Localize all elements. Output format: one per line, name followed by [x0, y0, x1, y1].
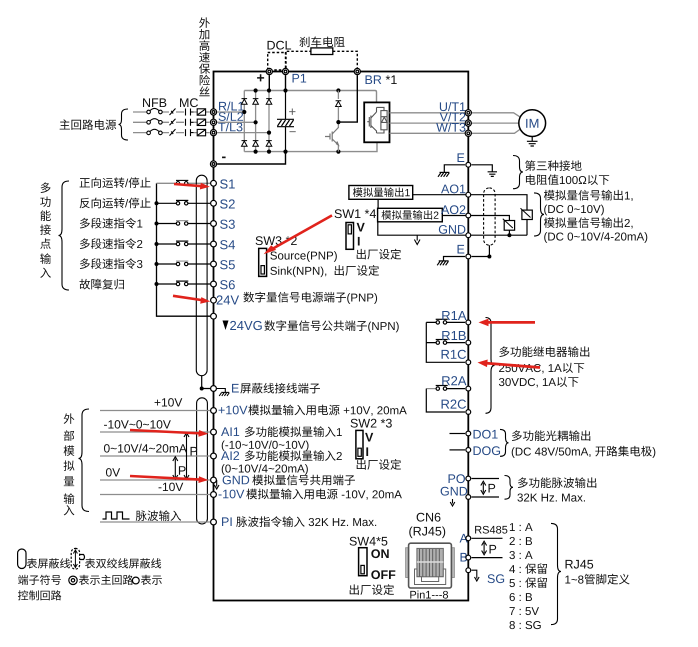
labels R2A R2C	[442, 376, 467, 409]
shield capsule AO pair	[484, 188, 496, 245]
terminals R1A R1B R1C	[466, 320, 471, 365]
brace analog outputs	[534, 193, 544, 236]
pulse waveform glyph	[103, 512, 130, 519]
label DOG	[474, 446, 501, 455]
label SW3 *2	[256, 236, 297, 245]
link box1 to box2	[377, 199, 379, 208]
annotation down arrow under box2	[414, 235, 420, 244]
optocoupler output DO1	[450, 433, 466, 435]
wire AO2	[442, 216, 509, 221]
wire minus terminal to bottom rail	[217, 152, 285, 164]
label +	[257, 74, 264, 81]
brace analog inputs	[79, 409, 90, 512]
switch SW2 body	[356, 430, 363, 458]
common vertical wire	[157, 183, 211, 316]
label minus	[222, 157, 226, 159]
label 1~8管脚定义	[565, 574, 629, 585]
switch SW1 body	[346, 223, 354, 250]
label DO1	[474, 430, 498, 439]
label CN6	[417, 513, 441, 522]
terminal E2	[466, 254, 471, 259]
twisted pair arrow P PO-GND	[481, 481, 486, 494]
red arrow AI1	[130, 430, 208, 437]
inverter module U1	[364, 102, 389, 142]
red arrow GND 0V	[130, 476, 208, 483]
label E2	[458, 245, 465, 254]
wire R1A with contact	[426, 319, 465, 362]
label 模拟量信号输出1,	[544, 190, 633, 201]
legend terminal symbols line	[18, 575, 162, 585]
brace RJ45 pins	[551, 523, 561, 624]
terminal AO1	[466, 192, 471, 197]
wire 0V GND	[100, 479, 210, 481]
label E1	[458, 153, 465, 162]
label AI1 row	[221, 426, 342, 437]
RJ45 pin definition list	[509, 523, 547, 629]
label (0~10V/4~20mA)	[222, 464, 308, 475]
wire R1B with contact	[426, 340, 465, 345]
analog out box 模拟量输出1	[349, 186, 413, 200]
twisted pair arrow P A-B	[482, 541, 487, 555]
label SW4*5	[350, 537, 388, 546]
row S6 wire and contact	[157, 281, 211, 286]
wire +10V	[100, 410, 210, 412]
capsule drain to E2	[472, 245, 490, 256]
switch SW3 body	[259, 248, 267, 276]
label (DC 0~10V)	[544, 205, 604, 216]
chopper IGBT Q	[325, 128, 338, 146]
main terminals R/L1 S/L2 T/L3	[210, 109, 216, 136]
label P1	[293, 74, 307, 83]
label 控制回路	[18, 590, 61, 600]
twisted pair arrow P AI2-GND	[173, 457, 178, 480]
label ON	[371, 549, 388, 558]
label 出厂设定 SW2	[357, 459, 401, 470]
DC bus capacitor	[277, 91, 294, 152]
vertical label 多功能接点输入	[40, 182, 51, 278]
brace main power	[119, 109, 129, 140]
brace third grounding	[513, 156, 523, 189]
wire GND analog	[378, 220, 527, 236]
row S5 wire and contact	[157, 261, 211, 266]
terminal GND analog	[466, 233, 471, 238]
label P pair2	[179, 466, 186, 475]
main inverter box	[214, 72, 469, 601]
wires terminals to bridge taps	[217, 112, 269, 133]
meter load 2	[503, 219, 515, 231]
GND drain arrow pulse	[450, 499, 455, 506]
analog out box 模拟量输出2	[378, 208, 443, 222]
row S2 wire and contact	[157, 200, 211, 205]
label (RJ45)	[409, 526, 445, 538]
label Source(PNP)	[270, 251, 337, 262]
label 模拟量信号输出2,	[544, 217, 633, 228]
terminal E1	[466, 162, 471, 167]
labels U/T1 V/T2 W/T3	[436, 102, 465, 132]
label 出厂设定 SW4	[350, 584, 394, 595]
rectifier bridge legs with diodes	[244, 91, 269, 152]
vertical text 外加高速保险丝	[199, 17, 210, 96]
wire AI2	[100, 455, 210, 457]
row S4 wire and contact	[157, 241, 211, 246]
labels AO1 AO2 GND	[439, 184, 466, 233]
label (DC 0~10V/4-20mA)	[544, 232, 647, 243]
label V SW1	[357, 223, 365, 232]
GND drain arrow	[214, 480, 219, 489]
twisted pair arrow P AI1-GND	[184, 433, 189, 480]
label SW1 *4	[335, 209, 376, 218]
switch SW4 body	[359, 548, 367, 576]
red arrow SW1 to SW3	[265, 215, 332, 253]
terminal BR	[354, 68, 360, 74]
labels R/L1 S/L2 T/L3	[218, 101, 244, 131]
terminal E shield	[211, 386, 217, 392]
label P A-B pair	[490, 545, 497, 554]
wire P1 terminal down through cap leg	[285, 75, 287, 90]
red arrow 24V	[173, 296, 210, 304]
label OFF	[371, 570, 395, 579]
row S3 wire and contact	[157, 221, 211, 226]
red arrow S1	[174, 183, 210, 190]
label P pair1	[191, 447, 198, 456]
input phase lines R S T with breaker, contactor, fuse	[133, 112, 210, 133]
brace optocoupler	[500, 429, 509, 456]
output terminals	[465, 110, 471, 137]
label 多功能脉波输出	[518, 477, 596, 488]
meter load 1	[521, 208, 533, 219]
E1 left wire and chassis ground	[438, 165, 465, 177]
wire AI1	[100, 431, 210, 433]
label 脉波输入	[136, 510, 181, 521]
label 主回路电源	[60, 119, 116, 130]
label I SW2	[366, 447, 368, 456]
DC bottom rail	[244, 142, 377, 151]
brace contact inputs	[59, 181, 70, 290]
terminals S1-S6 24V 24VG	[211, 180, 217, 319]
label SW2 *3	[351, 419, 392, 428]
capacitor polarity labels	[289, 108, 296, 132]
pulse output PO	[449, 474, 465, 483]
contactor MC contacts	[186, 109, 194, 137]
label RS485	[475, 526, 507, 534]
label 多功能光耦输出	[512, 430, 590, 441]
label AI2 row	[221, 450, 342, 461]
label 30VDC, 1A以下	[499, 377, 578, 388]
wire GND right	[472, 496, 500, 498]
capsule drain and E shield terminal	[202, 376, 211, 389]
label GND row	[223, 475, 355, 486]
analog terminals	[211, 408, 217, 525]
wire PO right	[472, 478, 500, 480]
label +10V row	[219, 405, 407, 416]
label NFB	[143, 98, 166, 107]
label DCL	[268, 41, 292, 50]
terminal minus	[210, 161, 216, 167]
relay output R2	[426, 386, 465, 413]
label Pin1---8	[410, 591, 448, 599]
E2 left wire and chassis ground	[437, 257, 465, 266]
terminal A	[460, 534, 468, 543]
SG drain arrow and label	[472, 570, 480, 581]
label 电阻值100Ω以下	[526, 174, 609, 185]
terminal SG circle	[466, 568, 471, 573]
label 250VAC, 1A以下	[499, 363, 584, 374]
shield capsule S rows	[196, 175, 207, 376]
E shield right wire and chassis glyph	[217, 389, 230, 397]
label 24VG and NPN note	[223, 320, 399, 332]
red arrow R1A	[479, 319, 536, 327]
label 24V and PNP note	[217, 292, 377, 305]
line labels	[104, 398, 187, 491]
label I SW1	[358, 237, 360, 246]
label (DC 48V/50mA, 开路集电极)	[512, 446, 656, 458]
label 出厂设定 SW1	[357, 249, 401, 260]
wire -10V	[100, 494, 210, 496]
terminal +	[266, 68, 272, 74]
wire AO1	[413, 195, 527, 210]
breaker slash marks	[170, 109, 176, 136]
label RJ45	[566, 560, 594, 569]
terminals R2A R2C	[466, 386, 471, 414]
terminal AO2	[466, 213, 471, 218]
label 刹车电阻	[299, 36, 344, 47]
red arrow R1C	[478, 360, 541, 368]
shield capsule analog rows	[197, 398, 208, 524]
label V SW2	[365, 433, 373, 442]
output wires U V W	[390, 113, 522, 134]
label 32K Hz. Max.	[517, 493, 585, 501]
bridge junction dots	[242, 88, 340, 153]
terminal P1	[282, 68, 288, 74]
terminal B	[461, 553, 468, 562]
optocoupler output DOG	[450, 449, 466, 451]
wire + terminal down to DC rail	[268, 75, 270, 90]
legend shield capsule icon	[18, 549, 26, 569]
row labels Chinese	[79, 177, 150, 289]
row S1 wire and contact	[157, 182, 211, 184]
label 多功能继电器输出	[499, 346, 589, 357]
labels R1A R1B R1C	[442, 311, 467, 359]
fuse boxes	[197, 109, 205, 136]
DC top rail	[244, 91, 376, 103]
brace relay outputs	[486, 318, 495, 414]
brake resistor dashed branch with resistor box	[286, 48, 358, 68]
breaker NFB poles	[147, 108, 162, 134]
labels S1-S6	[220, 179, 235, 289]
label 表双绞线屏蔽线	[85, 558, 161, 568]
wire chopper midpoint to BR terminal	[338, 75, 357, 122]
motor ground	[527, 137, 538, 147]
inverter module internal IGBT and diode	[367, 107, 387, 133]
label P PO pair	[489, 484, 496, 493]
label E屏蔽线接线端子	[232, 383, 320, 394]
brace pulse output	[505, 476, 514, 500]
label 第三种接地	[525, 160, 582, 171]
label -10V row	[219, 489, 402, 500]
label (-10~10V/0~10V)	[222, 440, 309, 451]
motor IM	[519, 110, 546, 137]
brake chopper leg	[336, 91, 342, 152]
DCL dashed box	[268, 53, 286, 71]
label GND pulse	[441, 487, 468, 496]
label 表屏蔽线	[27, 558, 70, 568]
junction dot AO2 drain	[507, 233, 511, 237]
legend twisted pair capsule icon	[71, 548, 84, 569]
junction dots on common wire	[155, 201, 159, 286]
wire PI	[100, 521, 210, 523]
label PI row	[222, 516, 376, 527]
label BR *1	[366, 75, 397, 84]
RJ45 jack graphic	[406, 543, 455, 588]
label MC	[180, 98, 198, 107]
vertical label 外部模拟量输入	[64, 413, 75, 515]
E1 right wire and earth ground	[472, 165, 498, 177]
label Sink(NPN), 出厂设定	[270, 265, 379, 277]
